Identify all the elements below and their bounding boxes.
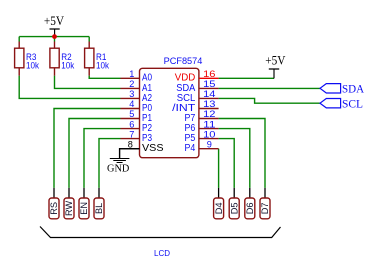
svg-text:SDA: SDA [342,81,365,95]
resistor R1 [85,48,110,70]
svg-text:LCD: LCD [154,248,170,258]
wire P4 net to D4 [218,149,220,188]
connector D6 [245,188,255,219]
connector D7 [260,188,270,219]
svg-text:D6: D6 [245,203,255,215]
svg-text:D5: D5 [229,203,239,215]
svg-text:9: 9 [207,139,212,149]
ground GND [107,159,130,175]
wire R2 bottom to pin2 [54,68,56,76]
svg-text:13: 13 [203,99,215,109]
pin 3 A2 [121,89,153,104]
svg-text:3: 3 [129,89,134,99]
svg-text:10k: 10k [96,61,109,71]
pin 12 P7 [185,109,219,124]
pin 13 /INT [172,99,219,114]
svg-text:EN: EN [79,202,89,215]
wire P1 net to RW [69,119,121,188]
pin 7 P3 [121,129,153,144]
svg-text:VSS: VSS [142,143,164,154]
svg-text:16: 16 [203,69,215,79]
svg-text:12: 12 [203,109,215,119]
pin 1 A0 [121,69,153,84]
power +5V left [44,14,65,36]
svg-text:14: 14 [203,89,215,99]
svg-text:+5V: +5V [265,53,286,67]
svg-text:11: 11 [203,119,215,129]
wire +5V rail top [19,36,89,38]
svg-text:4: 4 [129,99,134,109]
pin 8 VSS [121,139,165,154]
pin 10 P5 [185,129,219,144]
pin 4 P0 [121,99,153,114]
wire R1 bottom to pin1 [88,68,90,76]
wire VSS to ground [120,149,140,159]
svg-text:8: 8 [128,139,133,149]
svg-text:P4: P4 [185,143,196,154]
connector RW [64,188,74,219]
connector BL [94,188,104,219]
power +5V right [265,53,286,78]
svg-text:6: 6 [129,119,134,129]
wire P2 net to EN [84,129,121,188]
pin 9 P4 [185,139,219,154]
svg-text:RS: RS [49,202,59,215]
connector EN [79,188,89,219]
svg-text:2: 2 [129,79,134,89]
resistor R3 [15,48,40,70]
node junction dot [52,34,57,39]
pin 16 VDD [175,69,219,84]
pin 6 P2 [121,119,153,134]
wire R3 top lead [18,37,20,42]
node LCD bracket [40,227,281,259]
svg-text:1: 1 [129,69,134,79]
wire P5 net to D5 [219,139,235,188]
pin 15 SDA [176,79,218,94]
wire P0 net to RS [54,109,121,188]
svg-text:SCL: SCL [342,96,363,110]
svg-text:5: 5 [129,109,134,119]
svg-text:+5V: +5V [44,14,65,28]
resistor R2 [50,48,75,70]
wire P3 net to BL [99,139,121,188]
wire SDA net [219,87,320,89]
pin 5 P1 [121,109,153,124]
svg-text:10k: 10k [26,61,39,71]
node SCL flag [320,96,363,110]
node SDA flag [320,81,365,95]
svg-text:10k: 10k [61,61,74,71]
wire VDD net to +5V [219,77,274,79]
connector D4 [214,188,224,219]
connector D5 [229,188,239,219]
svg-text:15: 15 [203,79,215,89]
wire R2 top lead [54,37,56,42]
pin 2 A1 [121,79,153,94]
svg-text:PCF8574: PCF8574 [164,56,203,66]
wire R1 top lead [88,37,90,42]
svg-text:RW: RW [64,201,74,216]
pin 14 SCL [177,89,219,104]
wire P6 net to D6 [219,129,250,188]
svg-text:GND: GND [107,163,130,174]
wire R3 bottom to pin3 [18,68,20,76]
svg-text:BL: BL [94,203,104,214]
pin 11 P6 [185,119,219,134]
svg-text:10: 10 [203,129,215,139]
wire SCL net [219,98,320,103]
svg-text:D7: D7 [260,203,270,215]
op IC U1 PCF8574 body [140,56,203,158]
wire P7 net to D7 [219,119,265,188]
svg-text:D4: D4 [214,203,224,215]
connector RS [49,188,59,219]
svg-text:7: 7 [129,129,134,139]
